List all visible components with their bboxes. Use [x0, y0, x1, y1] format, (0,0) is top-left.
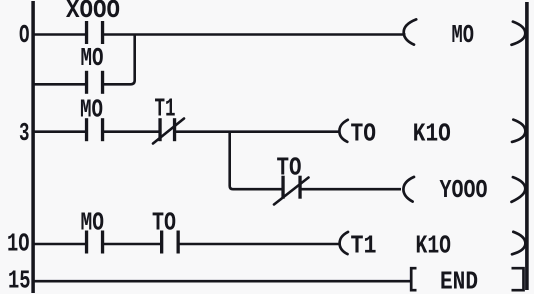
- svg-text:K1O: K1O: [416, 231, 452, 260]
- svg-text:MO: MO: [81, 209, 105, 238]
- svg-text:1O: 1O: [7, 230, 30, 259]
- svg-text:MO: MO: [452, 21, 475, 50]
- svg-text:MO: MO: [80, 96, 103, 125]
- svg-text:K1O: K1O: [413, 120, 451, 149]
- svg-text:END: END: [440, 267, 478, 294]
- svg-text:TO: TO: [351, 120, 377, 149]
- svg-text:15: 15: [8, 267, 31, 294]
- svg-text:YOOO: YOOO: [440, 176, 488, 205]
- svg-text:TO: TO: [152, 209, 176, 238]
- svg-text:T1: T1: [351, 231, 377, 260]
- svg-text:T1: T1: [155, 95, 176, 124]
- svg-text:TO: TO: [277, 154, 302, 183]
- svg-text:3: 3: [19, 119, 30, 148]
- svg-text:XOOO: XOOO: [66, 0, 120, 25]
- svg-text:MO: MO: [81, 44, 104, 73]
- svg-text:O: O: [19, 21, 30, 50]
